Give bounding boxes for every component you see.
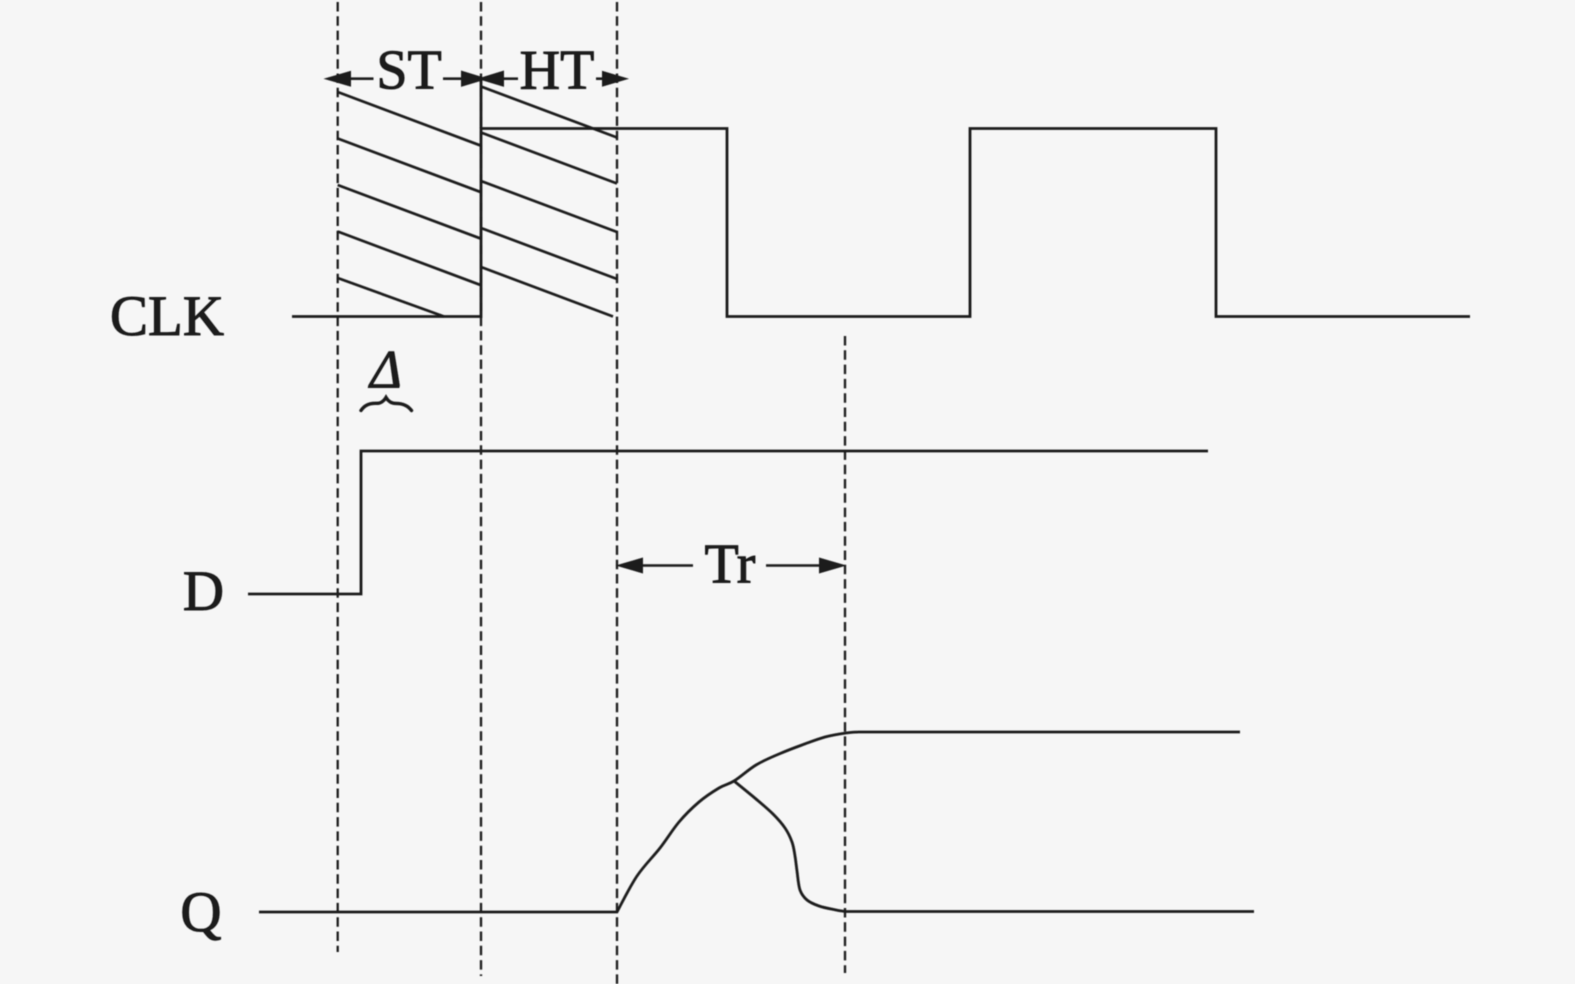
D waveform: [248, 451, 1208, 594]
arrowhead left of Tr: [616, 558, 644, 574]
arrowhead pair at clock edge: [461, 71, 488, 87]
svg-text:CLK: CLK: [110, 285, 224, 348]
svg-text:Q: Q: [180, 881, 221, 944]
Q waveform: low, metastable rise: [259, 732, 1240, 912]
squiggle brace under delta: [361, 398, 412, 411]
Tr dimension arrow shafts: [640, 564, 822, 567]
arrowhead left of ST: [324, 71, 352, 87]
svg-text:D: D: [183, 560, 224, 623]
arrowhead right of Tr: [819, 558, 847, 574]
arrowhead right of HT: [602, 71, 629, 87]
ST dimension arrow shafts: [347, 77, 607, 80]
dashed guide line t1 (start of setup window): [337, 2, 339, 952]
dashed guide line t2 (clock edge): [480, 2, 482, 976]
svg-text:ST: ST: [376, 40, 441, 102]
hatch lines, setup region: [338, 92, 481, 317]
CLK rising-edge extension through hatch: [480, 80, 483, 129]
hatch lines, hold region: [481, 87, 617, 317]
svg-text:Tr: Tr: [705, 534, 756, 596]
CLK waveform: [292, 129, 1470, 317]
svg-text:Δ: Δ: [368, 340, 402, 400]
svg-text:HT: HT: [520, 40, 595, 102]
dashed guide line t3 (end of hold window): [616, 2, 618, 984]
Q metastable fall-back branch: [734, 781, 1254, 912]
dashed guide line t4 (end of resolution time): [844, 336, 846, 973]
